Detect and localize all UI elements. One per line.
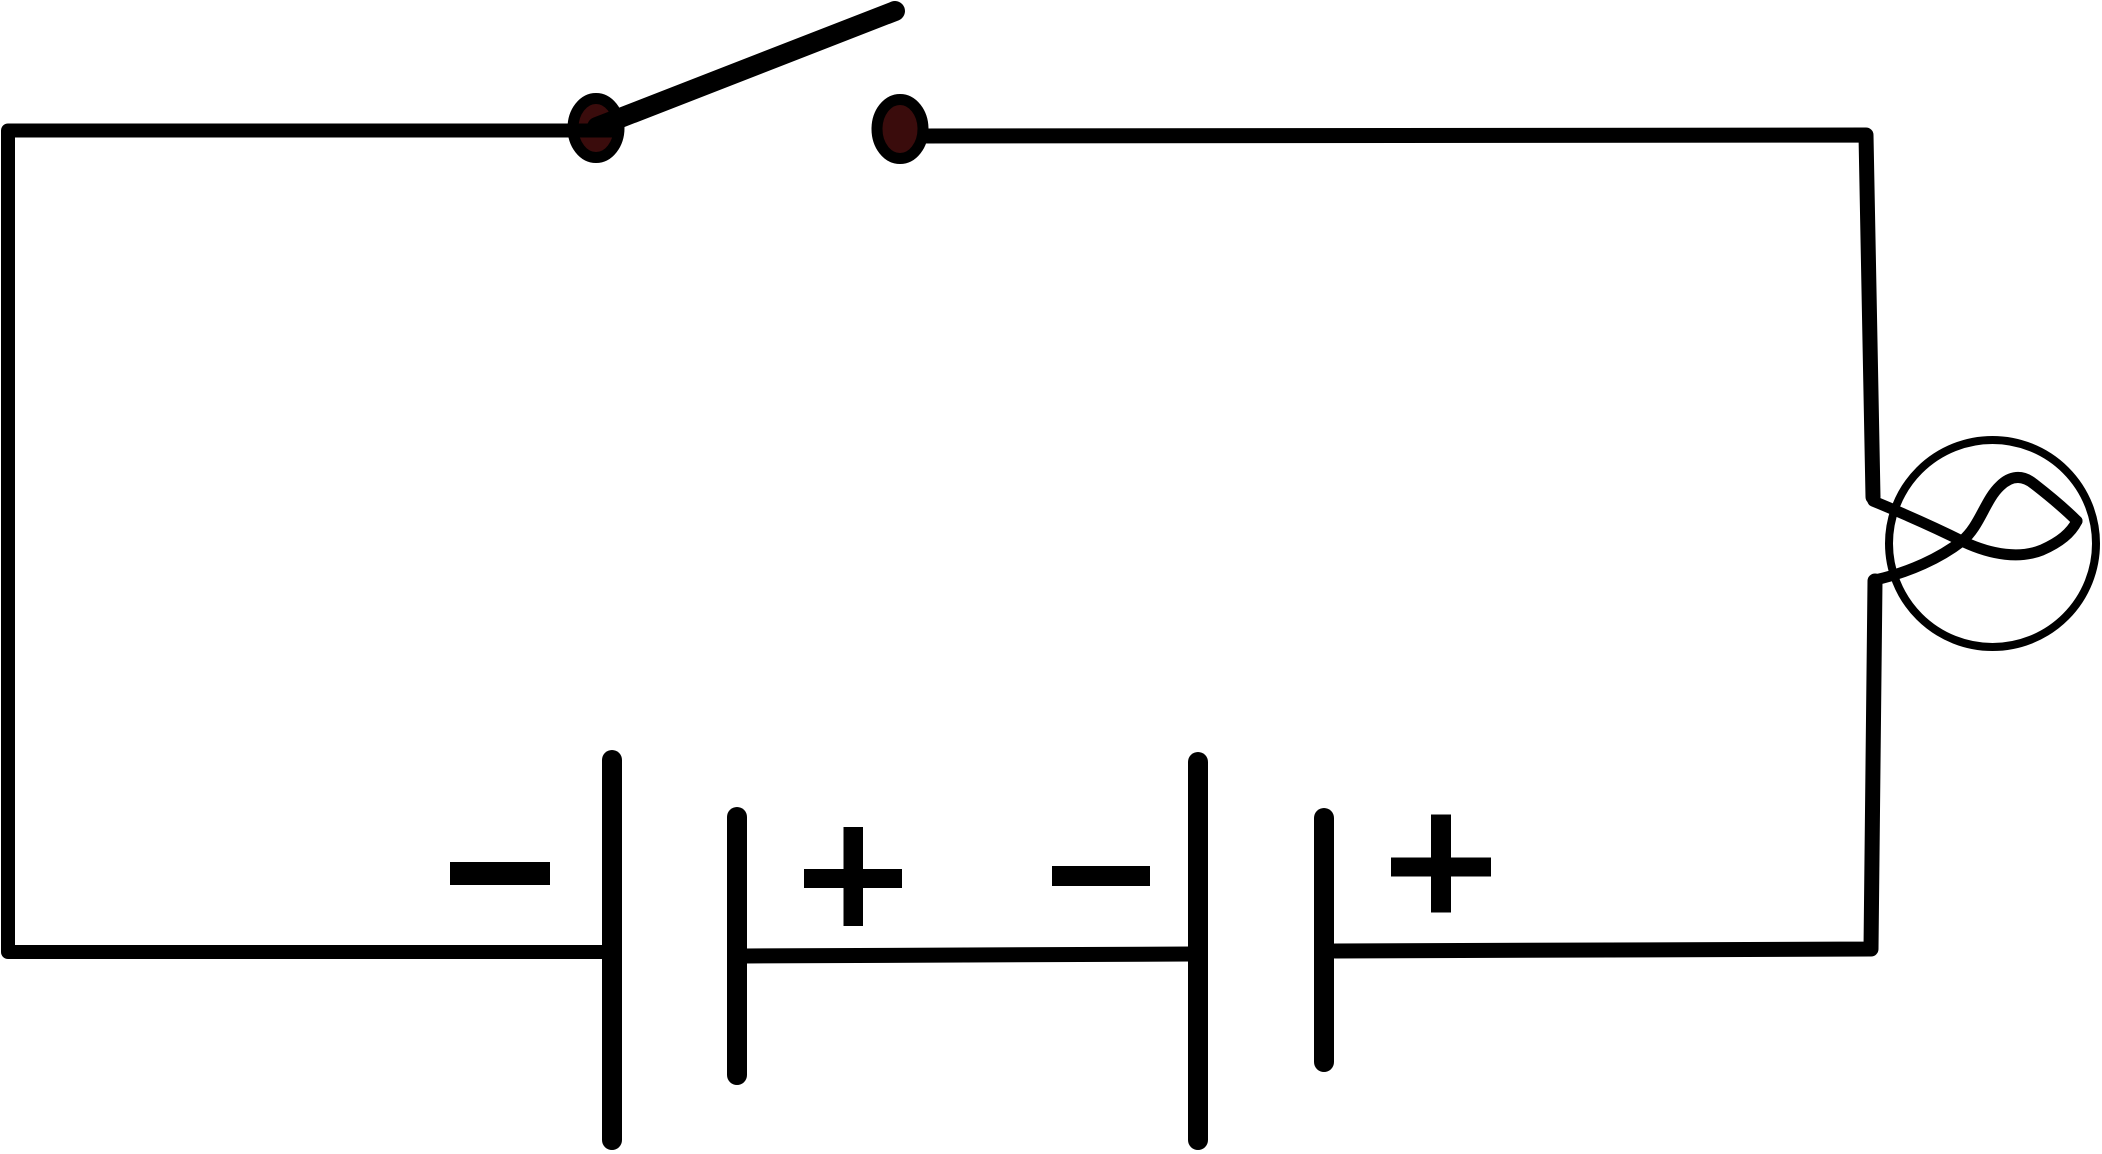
- battery cell B2 short plate (positive): [1314, 818, 1334, 1062]
- switch S1 right terminal dot: [877, 100, 923, 159]
- wire: between battery cells: [745, 954, 1192, 956]
- battery cell B2 minus label: [1052, 866, 1150, 886]
- battery cell B2 long plate (negative): [1188, 762, 1208, 1140]
- battery cell B1 short plate (positive): [727, 817, 747, 1075]
- battery cell B1 plus label: [804, 869, 902, 888]
- battery cell B2 plus label: [1391, 858, 1491, 877]
- battery cell B1 minus label: [450, 862, 550, 885]
- wire: top-right from switch to lamp (upper stub): [921, 135, 1873, 497]
- lamp L1 envelope circle: [1889, 440, 2096, 647]
- switch S1 left terminal dot: [573, 99, 619, 158]
- wire: lamp lower stub down to bottom-right corner and left to battery: [1335, 581, 1875, 951]
- lamp L1 filament lower curve: [1873, 501, 2077, 555]
- wire: top-left, left side, bottom-left loop: [8, 131, 622, 953]
- lamp L1 filament upper curve: [1875, 477, 2077, 580]
- switch S1 lever: [597, 11, 895, 127]
- battery cell B1 long plate (negative): [602, 760, 622, 1140]
